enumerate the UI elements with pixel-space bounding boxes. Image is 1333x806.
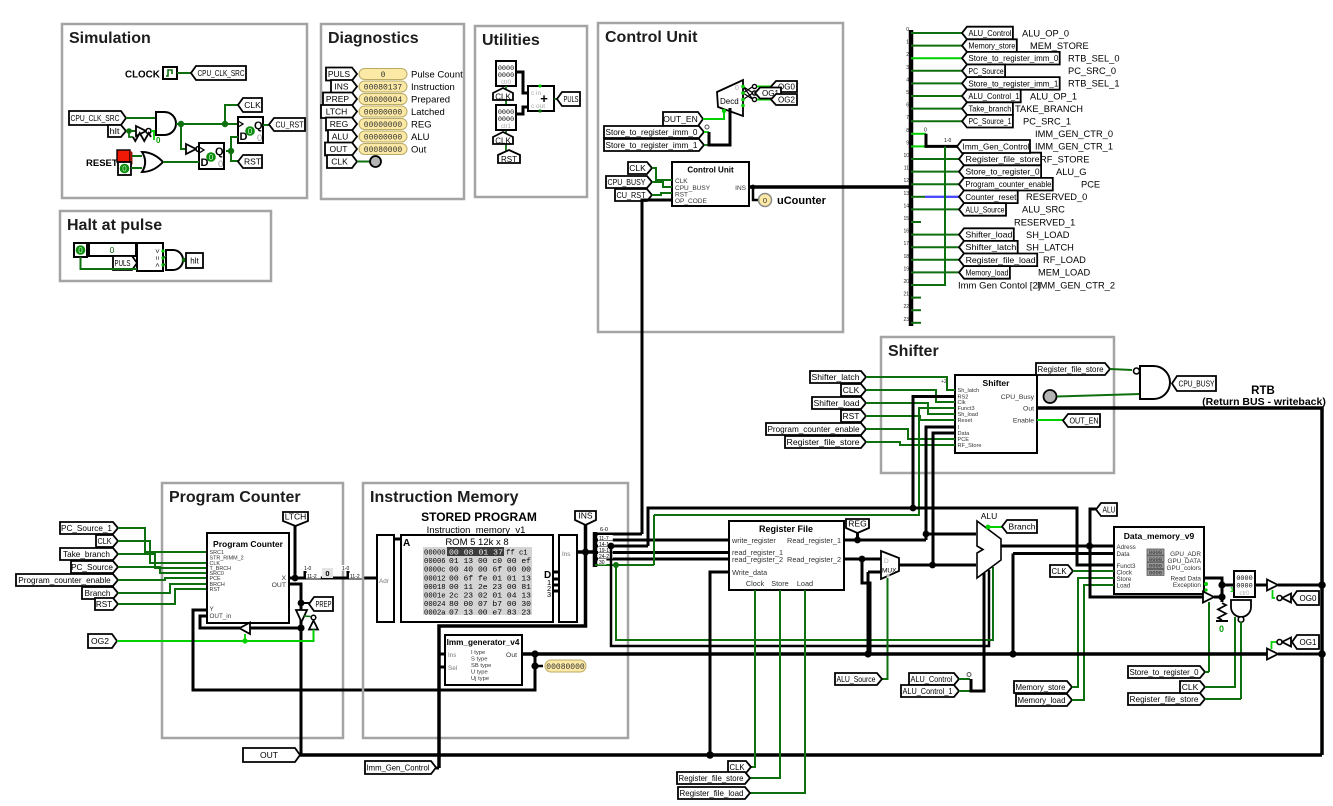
svg-text:Load: Load [797,579,813,588]
wire Register_file_store to NAND input [1110,369,1132,370]
bus Shifter Out to RTB [1037,408,1322,755]
wire OG1 gate [1272,642,1278,649]
svg-text:00080000: 00080000 [546,663,585,672]
svg-text:CLK: CLK [1182,682,1199,692]
svg-text:Data: Data [1117,551,1131,558]
controlled buffer to RTB (OG0) [1267,580,1278,591]
svg-text:Uj type: Uj type [471,676,489,682]
block Register File [729,521,844,590]
tunnel CLK diagnostics [327,155,357,168]
counter display ctr0 output [1234,571,1255,597]
tunnel CLK regfile bottom [728,761,751,773]
probe display (value 0) [89,243,136,256]
svg-text:CPU_BUSY: CPU_BUSY [1179,379,1215,389]
wire resistor to constant 0 [153,131,155,140]
tunnel LTCH diagnostics [321,105,357,118]
tunnel Store_to_register_0 bit 11 [959,165,1041,178]
tunnel Register_file_store [1036,363,1110,375]
svg-text:OG0: OG0 [1300,594,1317,603]
svg-text:ALU: ALU [332,132,349,142]
svg-text:Read_register_2: Read_register_2 [787,555,841,564]
bus read node to counter [1222,584,1234,587]
tunnel hlt [108,125,126,137]
tunnel OG1 out [1292,635,1319,649]
block Imm_generator_v4 [445,635,522,685]
svg-text:Adress: Adress [1117,544,1136,551]
svg-text:00 40 00 6f 00 00: 00 40 00 6f 00 00 [449,567,531,575]
splitter imm-gen-control combine bits 8,9 [926,134,957,147]
svg-text:RF_STORE: RF_STORE [1040,154,1089,164]
svg-text:0: 0 [763,196,767,205]
svg-text:MUX: MUX [882,568,897,575]
svg-text:ALU_Control: ALU_Control [911,674,953,684]
svg-text:PC_Source_1: PC_Source_1 [61,524,112,533]
NOT gate OG1 [1282,638,1291,647]
svg-text:16: 16 [903,229,909,235]
wire NAND out to Register_file_store [1240,622,1242,699]
tunnel Register_file_load bottom [678,787,750,799]
svg-text:CLK: CLK [495,136,511,145]
clock generator component [163,67,177,79]
tunnel Shifter_load bit 16 [959,228,1014,241]
junction mux riser on bus [864,650,871,657]
svg-text:3: 3 [906,65,909,71]
svg-text:<: < [153,263,160,267]
adder component [528,86,554,111]
svg-text:ALU_SRC: ALU_SRC [1022,205,1065,215]
svg-text:0001e: 0001e [424,593,446,601]
svg-text:I type: I type [471,650,485,656]
wire AND to hlt tunnel [183,259,186,261]
tunnel REG diagnostics [326,118,357,131]
svg-text:D: D [884,558,889,565]
wire funct7 riser to shifter [653,515,655,565]
junction RTB read data [1318,581,1326,589]
svg-text:Reset: Reset [958,418,973,424]
svg-text:ff c1: ff c1 [506,550,528,558]
tunnel CU_RST input [615,189,652,201]
block Shifter [955,375,1037,453]
svg-text:Register_file_store: Register_file_store [787,438,860,447]
svg-text:RESERVED_1: RESERVED_1 [1014,217,1075,227]
bus X output to Adr [289,577,377,580]
svg-text:SB type: SB type [471,663,491,669]
junction U3 Q [228,148,234,154]
bus immediate riser [867,572,870,654]
hex display Out [359,144,407,155]
svg-text:17: 17 [903,241,909,247]
svg-text:0000: 0000 [498,116,514,124]
svg-text:Sh_latch: Sh_latch [958,388,980,394]
wire to CLK tunnel [225,105,238,124]
svg-text:Q: Q [254,120,263,132]
tunnel CLK [238,98,262,112]
constant 0 pin component [118,162,131,175]
wire CLK to control unit [652,168,672,180]
svg-text:RESERVED_0: RESERVED_0 [1026,192,1087,202]
svg-text:1-0: 1-0 [304,566,311,572]
wire comparator lt to AND [163,264,166,265]
controlled buffer left (writeback to OUT_in) [240,623,251,635]
svg-text:CLOCK: CLOCK [125,70,160,81]
svg-text:Out: Out [1023,406,1034,413]
svg-text:ROM 5 12k x 8: ROM 5 12k x 8 [445,537,508,548]
bus INS tap to uCounter probe [753,187,759,200]
junction shifter data tap [929,562,936,569]
svg-text:Program Counter: Program Counter [213,539,284,549]
tunnel INS diagnostics [331,80,357,93]
svg-text:0: 0 [218,159,223,170]
junction PREP tap [298,600,305,607]
svg-text:Pulse Count: Pulse Count [411,70,463,81]
tunnel Store_to_register_imm_0 [604,126,704,138]
junction write data riser [706,751,714,759]
svg-text:0: 0 [248,127,253,136]
svg-text:14: 14 [903,203,909,209]
svg-text:OUT_in: OUT_in [210,613,232,620]
svg-text:GPU_ADR: GPU_ADR [1170,551,1201,558]
junction A1 output [178,121,184,127]
svg-text:uCounter: uCounter [777,195,827,207]
svg-text:ALU_OP_1: ALU_OP_1 [1030,91,1077,101]
svg-text:PREP: PREP [316,599,332,609]
tunnel PULS input [113,256,137,270]
tunnel ALU_Control_1 [901,685,959,697]
splitter leg 6-0 opcode [595,533,642,536]
svg-text:+2: +2 [941,379,947,385]
svg-text:Store_to_register_imm_1: Store_to_register_imm_1 [606,141,699,150]
wire imm1 stub [704,144,710,146]
svg-text:2: 2 [906,52,909,58]
svg-text:Halt at pulse: Halt at pulse [67,217,162,234]
AND gate A1 [156,112,176,135]
wire decoder out0 to OG0 [757,86,771,88]
bus writeback bottom [300,753,1322,757]
tunnel OUT_EN [663,112,703,126]
svg-text:OUT_EN: OUT_EN [1070,416,1099,426]
svg-text:RST: RST [843,411,860,421]
svg-text:OUT_EN: OUT_EN [663,114,697,124]
wire clock to CPU_CLK_SRC tunnel [177,72,191,74]
tunnel Program_counter_enable pc [16,574,118,586]
svg-text:0: 0 [156,136,161,145]
svg-text:PC_Source: PC_Source [71,563,113,572]
bus writeback to OUT_in via buffer [200,616,301,628]
resistor pull-down read bus [1218,603,1226,620]
ROM contents grid [423,547,532,615]
wire CLK to Clk pin [866,390,955,402]
svg-text:STORED PROGRAM: STORED PROGRAM [421,510,537,524]
wire CU_RST to RST pin [652,193,672,195]
wire Register_file_store stub [1205,698,1241,700]
svg-text:IMM_GEN_CTR_1: IMM_GEN_CTR_1 [1035,142,1113,152]
svg-text:Prepared: Prepared [411,95,450,106]
svg-text:OP_CODE: OP_CODE [675,198,707,205]
svg-text:Memory_store: Memory_store [968,42,1015,51]
svg-text:1: 1 [906,40,909,46]
wire CLK to pc pin [118,541,207,563]
tunnel ALU result [1096,503,1117,516]
svg-text:CLK: CLK [730,762,745,772]
junction X LTCH [292,575,299,582]
AND gate CPU_BUSY with inverted input [1134,368,1140,374]
bus counter2 to adder [516,107,528,114]
svg-text:4: 4 [906,77,909,83]
tunnel LTCH [283,512,308,526]
container box Simulation [62,24,307,198]
tunnel Imm_Gen_Control bottom [365,761,436,774]
tunnel CPU_CLK_SRC source [69,111,126,125]
tunnel Shifter_latch [810,371,866,383]
svg-text:OG2: OG2 [778,95,795,104]
svg-text:Imm_Gen_Control: Imm_Gen_Control [963,142,1030,151]
bus imm select to decoder [709,108,730,145]
svg-text:CLK: CLK [1052,566,1067,576]
splitter instruction fields spine [593,532,598,567]
wire CLK to LED [357,161,370,163]
wire Memory_store to Store pin [1072,578,1114,687]
bus REG tap [856,533,859,540]
tunnel ALU_Control [909,673,959,685]
tunnel Program_counter_enable shifter [766,423,866,435]
svg-text:PC_Source_1: PC_Source_1 [968,117,1011,126]
svg-text:19: 19 [903,266,909,272]
block Adr input register [377,535,394,622]
tunnel CU_RST [269,118,305,131]
splice rings decoder outputs [752,84,756,88]
svg-text:00 6f fe 01 01 13: 00 6f fe 01 01 13 [449,575,531,583]
svg-text:Control Unit: Control Unit [605,29,698,46]
tunnel Register_file_store bottom [677,772,750,784]
junction store data riser on bus [1009,650,1016,657]
svg-text:0: 0 [110,245,115,255]
AND gate G4 halt [166,250,183,270]
svg-text:5: 5 [906,90,909,96]
svg-text:GPU_DATA: GPU_DATA [1168,558,1202,565]
tunnel Memory_store [1014,681,1072,693]
splitter leg 11-7 rd [595,539,729,542]
svg-text:Store_to_register_imm_0: Store_to_register_imm_0 [968,54,1058,63]
svg-text:0000: 0000 [1236,583,1252,591]
svg-text:Imm Gen Contol [2]: Imm Gen Contol [2] [958,280,1040,291]
svg-text:10: 10 [903,153,909,159]
svg-text:ALU_Control_1: ALU_Control_1 [968,92,1019,101]
wire PC_Source to pc pin [118,567,207,573]
NOT gate G2 [186,144,196,154]
svg-text:RF_LOAD: RF_LOAD [1043,255,1086,265]
tunnel Store_to_register_imm_1 [604,139,704,151]
svg-text:00018: 00018 [424,584,446,592]
tunnel Counter_reset bit 13 [959,191,1018,204]
svg-text:Imm_generator_v4: Imm_generator_v4 [447,638,520,647]
svg-text:6: 6 [906,103,909,109]
svg-text:13: 13 [903,191,909,197]
tunnel Shifter_latch bit 17 [959,241,1018,254]
svg-text:PC_SRC_1: PC_SRC_1 [1023,117,1071,127]
wire ALU_Source to MUX select [882,578,888,679]
svg-text:00006: 00006 [424,558,446,566]
block Data_memory_v9 [1114,527,1204,594]
wire hlt to NOT gate [126,130,136,132]
svg-text:Store_to_register_0: Store_to_register_0 [1130,668,1199,677]
svg-text:9: 9 [906,140,909,146]
svg-text:CLK: CLK [495,92,511,101]
svg-text:0000: 0000 [1149,569,1162,576]
svg-text:11: 11 [904,166,909,172]
tunnel INS top [575,511,596,525]
junction INS tunnel tap [582,548,589,555]
wire register file Clock riser [751,590,755,767]
wire Branch to pc pin [118,584,207,593]
svg-text:Load: Load [1117,583,1131,590]
tunnel OUT diagnostics [325,143,357,156]
wire U3 Q to RST tunnel [231,151,238,161]
svg-text:LTCH: LTCH [326,107,348,117]
svg-text:RST: RST [96,600,112,609]
tunnel OG1 [755,88,781,99]
tunnel Store_to_register_0 [1128,666,1205,678]
svg-text:Simulation: Simulation [69,30,151,47]
svg-text:18: 18 [903,254,909,260]
NAND gate register store control [1231,600,1251,617]
svg-text:RTB_SEL_1: RTB_SEL_1 [1068,79,1120,89]
svg-text:Q: Q [215,146,224,158]
svg-text:Out: Out [506,652,517,659]
flip-flop U2 (CU_RST) [238,117,263,143]
mini hex displays GPU [1147,549,1164,555]
counter ctr0 (low word) [496,61,516,86]
svg-text:Out: Out [411,145,427,156]
tunnel OUT bottom [243,748,300,762]
svg-text:Memory_load: Memory_load [965,268,1008,277]
svg-text:RESET: RESET [86,158,118,169]
svg-text:Shifter: Shifter [983,378,1011,388]
svg-text:CPU_Busy: CPU_Busy [1001,394,1035,401]
push button RESET [117,150,130,162]
hex display Prepared [359,94,407,105]
svg-text:read_register_2: read_register_2 [732,555,783,564]
svg-text:Data_memory_v9: Data_memory_v9 [1124,531,1195,541]
svg-text:Utilities: Utilities [482,32,540,49]
svg-text:OUT: OUT [272,582,286,589]
svg-text:CLK: CLK [244,100,261,110]
controlled buffer to RTB (OG1) [1267,649,1278,660]
svg-text:0000: 0000 [498,72,514,80]
wire comparator eq to AND [163,256,166,258]
svg-text:Diagnostics: Diagnostics [328,30,419,47]
bus imm display tap [534,654,537,666]
bus rs2 to store data bus [862,559,870,654]
svg-text:INS: INS [578,511,593,521]
bus Ins to splitter [577,550,595,554]
tunnel RST counters [498,150,520,163]
svg-text:Sel: Sel [448,665,457,672]
svg-text:21: 21 [903,292,909,298]
bus to imm display [535,665,543,668]
controlled buffer down (PC out) [296,610,307,622]
svg-text:Register_file_store: Register_file_store [1038,365,1104,374]
svg-text:SH_LOAD: SH_LOAD [1026,230,1070,240]
svg-text:Register_file_load: Register_file_load [966,256,1036,265]
junction imm out [531,650,538,657]
svg-text:=: = [153,256,160,260]
tunnel OG0 out [1292,591,1319,605]
wire ALU branch flag [988,526,1002,528]
junction writeback feedback [297,624,304,631]
constant 0 pc [322,568,333,578]
container box Utilities [475,26,587,197]
tunnel CLK counter1 [493,88,513,100]
svg-text:00000: 00000 [424,550,446,558]
bus OG1 to RTB vertical [1278,653,1322,656]
svg-text:CPU_CLK_SRC: CPU_CLK_SRC [71,113,120,123]
bus ALU-B riser to shifter Data [933,433,955,565]
svg-text:Register_file_store: Register_file_store [1130,695,1199,704]
bus INS riser and imm generator feed [439,525,586,768]
svg-text:PREP: PREP [326,94,349,104]
splitter leg 14-12 funct3 [595,545,648,548]
svg-text:PULS: PULS [328,69,351,79]
svg-text:23: 23 [903,317,909,323]
container box Diagnostics [321,24,464,199]
svg-text:Register_file_store: Register_file_store [966,155,1040,164]
container box Instruction Memory [363,483,628,738]
container box Halt at pulse [60,211,271,281]
svg-text:Register_file_load: Register_file_load [680,789,744,798]
wire Shifter_latch to Sh_latch pin [866,377,955,390]
svg-text:0: 0 [381,71,386,80]
wire Store_to_register_0 stub [1205,671,1209,673]
svg-text:CLK: CLK [98,537,112,546]
svg-text:00000004: 00000004 [364,96,403,105]
svg-text:Store: Store [771,579,788,588]
tunnel hlt output [186,253,203,268]
tunnel Register_file_store dm [1128,693,1205,705]
svg-text:0: 0 [209,153,214,162]
svg-text:11-2: 11-2 [350,574,360,580]
bus OP_CODE from splitter leg 6-0 [642,200,672,534]
tunnel Memory_store bit 1 [962,39,1017,52]
svg-text:S type: S type [471,657,487,663]
svg-text:Enable: Enable [1013,418,1034,425]
tunnel Store_to_register_imm_0 bit 2 [962,52,1060,65]
ALU component [977,521,1001,578]
ground tick and 0 [1216,620,1228,622]
svg-text:ALU_G: ALU_G [1056,167,1087,177]
svg-text:Branch: Branch [85,589,111,598]
tunnel Register_file_store shifter [785,436,866,448]
tunnel Imm_Gen_Control bit 9 [957,140,1030,153]
tunnel Branch [1002,520,1037,533]
svg-text:MEM_STORE: MEM_STORE [1030,41,1089,51]
svg-text:ALU: ALU [981,511,998,521]
svg-text:Branch: Branch [1009,522,1036,532]
svg-text:ALU_Source: ALU_Source [966,205,1005,214]
wire to PREP tunnel [301,602,309,604]
bus writeback to Write_data [710,572,729,755]
svg-text:Instruction: Instruction [411,82,455,93]
tunnel PULS output [557,92,580,106]
NOT gate OG0 [1282,594,1291,603]
junction rs2 store tap [859,556,866,563]
wire CLK to NAND [1205,617,1235,687]
svg-text:OUT: OUT [260,750,278,760]
hex display Instruction [359,81,407,92]
svg-text:Ins: Ins [448,652,456,659]
wire OG0 gate [1273,590,1276,598]
wire constant 0 to comparator [81,257,138,269]
wire Shifter_load to Sh_load pin [866,403,955,414]
